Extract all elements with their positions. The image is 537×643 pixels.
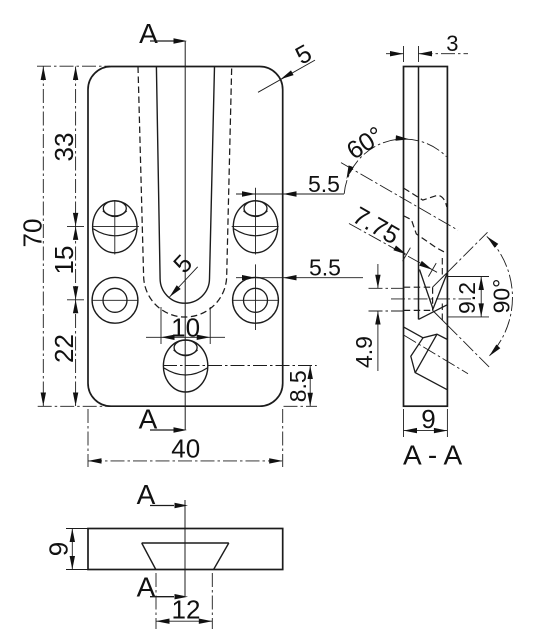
bottom hole axis chain	[404, 335, 468, 373]
dimension 4.9 line	[377, 264, 379, 288]
svg-text:9: 9	[421, 404, 435, 434]
tick at 33/15 boundary	[67, 225, 84, 227]
svg-text:8.5: 8.5	[285, 370, 311, 402]
slot end cone V	[420, 270, 448, 310]
radius 5 leader	[258, 60, 315, 92]
dimension 70 line	[42, 67, 44, 407]
hidden slot edge verticals near face	[441, 258, 443, 278]
dimension 12 line	[156, 620, 212, 622]
svg-text:70: 70	[17, 219, 47, 248]
dimension 10 extension lines	[160, 307, 162, 344]
hole mid-right outer circle	[233, 277, 279, 323]
mid hole centerline	[391, 298, 471, 300]
angled hole cone/surface arc	[234, 229, 277, 236]
angled hole cone/drill intersection arc	[103, 211, 127, 217]
hole mid-left outer circle	[92, 277, 138, 323]
dimension 7.75 extension ticks	[403, 248, 411, 262]
dimension 4.9 extension chains	[369, 287, 404, 289]
centerline horizontal hole top-left	[92, 225, 139, 227]
dimension 12 extension chains	[155, 573, 157, 629]
dimension 10 line	[146, 336, 225, 338]
dimension 9 extension lines bottom view	[66, 528, 88, 530]
slot visible edge (solid U)	[156, 67, 214, 304]
slot bottom face line in section	[418, 67, 420, 320]
dimension chain 33/15/22 line	[75, 67, 77, 407]
mid hole hidden wall upper	[404, 286, 433, 288]
section arrow A above bottom view	[150, 505, 174, 507]
angled hole cone/drill intersection arc	[244, 211, 268, 217]
dimension 3 extension lines	[403, 46, 405, 62]
dimension 9 line section	[404, 430, 448, 432]
svg-text:A: A	[139, 18, 158, 49]
svg-text:15: 15	[49, 246, 79, 275]
bottom countersunk hole cut outline	[404, 327, 448, 340]
slot radius 5 leader	[170, 267, 198, 297]
section arrow A top	[150, 40, 174, 42]
extension chain bottom edge	[38, 405, 112, 407]
dimension 8.5 extension chain bottom	[284, 405, 318, 407]
angled hole drill ellipse	[103, 201, 126, 216]
dimension 9.2 line	[480, 277, 482, 317]
svg-text:22: 22	[49, 334, 79, 363]
dimension 9 extension lines section	[403, 409, 405, 437]
bottom view outline	[88, 529, 283, 570]
angled hole cone/surface arc	[93, 229, 136, 236]
svg-text:5.5: 5.5	[309, 254, 341, 280]
svg-text:90°: 90°	[489, 279, 515, 314]
countersunk angled hole outer ellipse at 115,227	[93, 201, 137, 253]
countersink cone leg upper	[433, 272, 448, 287]
angled hole hidden outline lower	[404, 216, 447, 254]
dimension 5.5 upper line	[236, 193, 256, 195]
section A-A outline	[404, 67, 448, 407]
section cutting line A-A vertical	[184, 41, 186, 430]
svg-text:4.9: 4.9	[351, 336, 377, 368]
angle 90 deg arc	[487, 236, 513, 356]
tapered slot trapezoid right flank	[214, 543, 229, 570]
countersink cone leg lower	[433, 310, 448, 325]
svg-text:9: 9	[43, 542, 73, 556]
hole mid-left inner circle	[103, 288, 127, 312]
svg-text:12: 12	[172, 594, 201, 624]
svg-text:3: 3	[446, 31, 458, 56]
centerline horizontal hole mid-right	[232, 299, 279, 301]
mid hole hidden wall lower	[404, 309, 433, 311]
slot hidden edge (dashed U)	[138, 67, 232, 318]
mid hole hidden bottom	[432, 287, 434, 310]
svg-text:40: 40	[171, 433, 200, 463]
angled hole cone/drill intersection arc	[174, 350, 198, 356]
svg-text:33: 33	[49, 133, 79, 162]
angle 60 deg arc	[344, 139, 446, 194]
svg-text:9.2: 9.2	[454, 282, 480, 314]
angled hole cone/surface arc	[164, 368, 207, 375]
dimension 5.5 lower line	[236, 277, 256, 279]
countersunk angled hole outer ellipse at 186,366	[163, 340, 207, 392]
countersunk angled hole outer ellipse at 256,227	[233, 201, 277, 253]
dimension 40 extension lines	[87, 409, 89, 467]
svg-text:A - A: A - A	[403, 440, 462, 471]
centerline horizontal hole top-right	[232, 225, 279, 227]
angled hole axis chain line	[341, 163, 458, 231]
dimension 9.2 extension lines	[447, 276, 489, 278]
centerline horizontal hole mid-left	[92, 299, 138, 301]
centerline vertical hole top-left	[114, 200, 116, 255]
dimension 7.75 line	[349, 224, 437, 273]
dimension 3 line	[386, 53, 404, 55]
centerline vertical hole mid-right (ext for 5.5)	[255, 264, 257, 330]
angled hole drill ellipse	[244, 201, 267, 216]
extension chain top edge	[37, 65, 110, 67]
svg-text:A: A	[137, 572, 156, 603]
slot end ramp line	[419, 305, 448, 320]
tapered slot trapezoid top edge	[142, 542, 229, 544]
hole mid-right inner circle	[244, 288, 268, 312]
section arrow A below bottom view	[150, 596, 174, 598]
dimension 9 line bottom view	[71, 529, 73, 570]
section arrow A bottom of plan	[150, 429, 174, 431]
centerline vertical hole top-right (ext for 5.5)	[255, 188, 257, 255]
bottom hole internal cone line	[415, 334, 437, 372]
dimension 8.5 line	[309, 366, 311, 407]
angled hole drill ellipse	[174, 340, 197, 355]
centerline horizontal hole bottom-center (ext for 8.5)	[163, 365, 317, 367]
svg-text:10: 10	[171, 313, 200, 343]
angled hole hidden outline upper	[404, 188, 447, 207]
dimension 40 line	[88, 460, 283, 462]
plate outline plan view	[88, 67, 283, 407]
tapered slot trapezoid left flank	[142, 543, 156, 570]
svg-text:5.5: 5.5	[308, 171, 340, 197]
tick at 15/22 boundary	[67, 299, 84, 301]
bottom view center line	[184, 500, 186, 596]
